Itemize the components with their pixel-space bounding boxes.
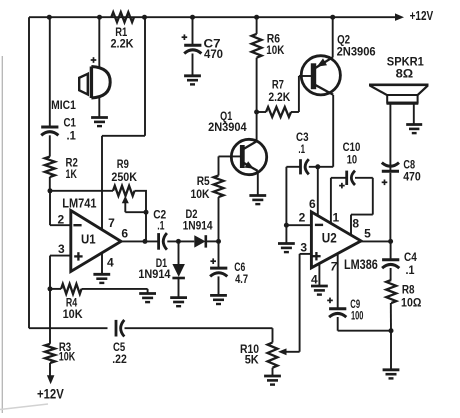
svg-text:10K: 10K <box>266 43 284 57</box>
svg-text:.1: .1 <box>157 219 165 233</box>
svg-text:470: 470 <box>403 169 421 183</box>
svg-text:MIC1: MIC1 <box>51 98 76 112</box>
svg-text:2N3906: 2N3906 <box>337 45 376 59</box>
svg-text:.1: .1 <box>298 142 305 156</box>
svg-text:2.2K: 2.2K <box>111 37 134 51</box>
svg-text:5K: 5K <box>245 353 259 367</box>
svg-text:2.2K: 2.2K <box>268 90 290 104</box>
svg-text:4: 4 <box>311 273 318 287</box>
svg-text:1: 1 <box>332 210 339 224</box>
svg-text:10K: 10K <box>63 307 83 321</box>
svg-text:10: 10 <box>347 152 358 166</box>
svg-text:R8: R8 <box>402 283 415 297</box>
svg-text:10K: 10K <box>191 187 210 201</box>
svg-text:1K: 1K <box>66 167 78 181</box>
svg-text:10Ω: 10Ω <box>401 296 422 310</box>
svg-text:100: 100 <box>351 308 364 322</box>
svg-text:4: 4 <box>107 256 114 270</box>
svg-text:470: 470 <box>204 47 223 61</box>
svg-text:1N914: 1N914 <box>138 267 170 281</box>
svg-text:4.7: 4.7 <box>235 272 248 286</box>
svg-text:R5: R5 <box>197 174 210 188</box>
svg-text:.22: .22 <box>112 352 127 366</box>
svg-text:10K: 10K <box>59 349 76 363</box>
svg-text:2: 2 <box>58 212 65 226</box>
svg-text:2N3904: 2N3904 <box>208 120 247 134</box>
svg-text:LM386: LM386 <box>344 257 378 272</box>
svg-text:250K: 250K <box>111 170 137 184</box>
svg-text:+12V: +12V <box>37 386 64 401</box>
svg-text:+12V: +12V <box>410 8 434 23</box>
svg-text:7: 7 <box>108 216 115 230</box>
svg-text:.1: .1 <box>406 263 415 277</box>
svg-text:LM741: LM741 <box>62 195 96 210</box>
svg-text:3: 3 <box>300 240 307 254</box>
svg-text:5: 5 <box>364 226 371 240</box>
svg-text:6: 6 <box>121 227 128 241</box>
svg-text:1N914: 1N914 <box>183 219 213 233</box>
svg-text:8Ω: 8Ω <box>396 67 414 81</box>
svg-text:6: 6 <box>309 197 316 211</box>
svg-text:.1: .1 <box>67 128 77 142</box>
svg-text:U2: U2 <box>322 231 337 246</box>
svg-text:8: 8 <box>352 217 359 231</box>
svg-text:U1: U1 <box>81 232 96 247</box>
svg-text:2: 2 <box>299 210 306 224</box>
svg-text:R9: R9 <box>117 157 129 171</box>
svg-text:3: 3 <box>58 242 65 256</box>
